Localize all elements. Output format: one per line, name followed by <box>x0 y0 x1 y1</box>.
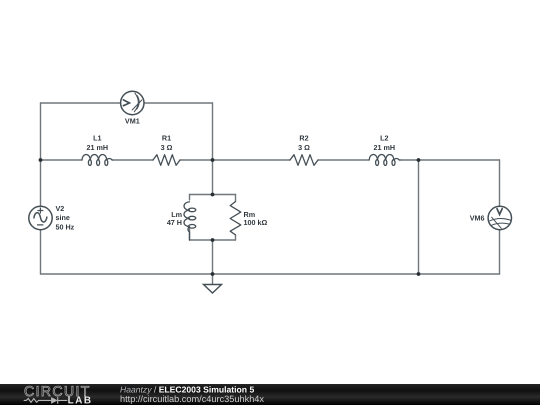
logo diode <box>51 397 58 404</box>
svg-text:21 mH: 21 mH <box>87 143 109 152</box>
wire L2 to right corner <box>400 159 500 161</box>
wire parallel block top rail <box>190 194 236 196</box>
wire ground stub <box>212 274 214 285</box>
svg-text:3 Ω: 3 Ω <box>161 143 173 152</box>
resistor Rm <box>230 202 241 235</box>
svg-text:R2: R2 <box>299 134 308 143</box>
node main rail left junction <box>39 158 43 162</box>
logo resistor squiggle <box>24 399 51 403</box>
node bottom rail right junction <box>417 272 421 276</box>
wire top-left horizontal to VM1 <box>41 102 121 104</box>
wire main rail segment left <box>41 159 83 161</box>
wire Rm branch bottom stub <box>235 235 237 240</box>
node main rail right junction <box>417 158 421 162</box>
resistor R1 <box>153 155 180 166</box>
voltage source V2 <box>29 206 52 229</box>
inductor L2 <box>369 155 400 161</box>
logo LAB text <box>68 397 90 404</box>
svg-text:sine: sine <box>56 213 70 222</box>
wire L1 to R1 <box>113 159 153 161</box>
svg-text:V2: V2 <box>56 204 65 213</box>
svg-text:50 Hz: 50 Hz <box>56 222 75 231</box>
svg-text:VM1: VM1 <box>125 116 140 125</box>
node parallel block top <box>211 193 215 197</box>
inductor L1 <box>82 155 113 161</box>
svg-text:100 kΩ: 100 kΩ <box>244 218 268 227</box>
wire R1 to R2 <box>180 159 290 161</box>
inductor Lm <box>184 202 190 240</box>
svg-text:47 H: 47 H <box>167 218 182 227</box>
wire parallel block bottom to ground rail <box>212 240 214 274</box>
wire left vertical upper (node to V2) <box>40 103 42 206</box>
voltmeter VM1 <box>121 91 144 114</box>
wire VM1 right to corner <box>144 102 213 104</box>
wire Rm branch top stub <box>235 195 237 202</box>
node ground junction <box>211 272 215 276</box>
wire bottom rail <box>41 273 500 275</box>
svg-text:3 Ω: 3 Ω <box>298 143 310 152</box>
svg-text:R1: R1 <box>162 134 171 143</box>
wire right vertical upper (corner to VM6) <box>499 160 501 206</box>
wire left vertical lower (V2 to bottom rail) <box>40 230 42 274</box>
wire parallel block bottom rail <box>190 239 236 241</box>
ground <box>204 285 222 294</box>
svg-text:L1: L1 <box>93 134 101 143</box>
node main rail center junction <box>211 158 215 162</box>
svg-text:L2: L2 <box>380 134 388 143</box>
wire mid-right vertical (node B to bottom rail) <box>418 160 420 274</box>
node parallel block bottom <box>211 238 215 242</box>
svg-text:http://circuitlab.com/c4urc35u: http://circuitlab.com/c4urc35uhkh4x <box>120 394 264 404</box>
logo CIRCUIT text <box>25 386 89 396</box>
svg-text:21 mH: 21 mH <box>374 143 396 152</box>
wire right vertical lower (VM6 to bottom rail) <box>499 230 501 274</box>
voltmeter VM6 <box>488 206 511 229</box>
wire Lm branch top stub <box>189 195 191 201</box>
resistor R2 <box>290 155 318 166</box>
wire R2 to L2 <box>318 159 369 161</box>
wire Lm branch bottom stub <box>189 229 191 241</box>
svg-text:VM6: VM6 <box>470 213 485 222</box>
wire vertical from top corner to parallel block <box>212 103 214 195</box>
